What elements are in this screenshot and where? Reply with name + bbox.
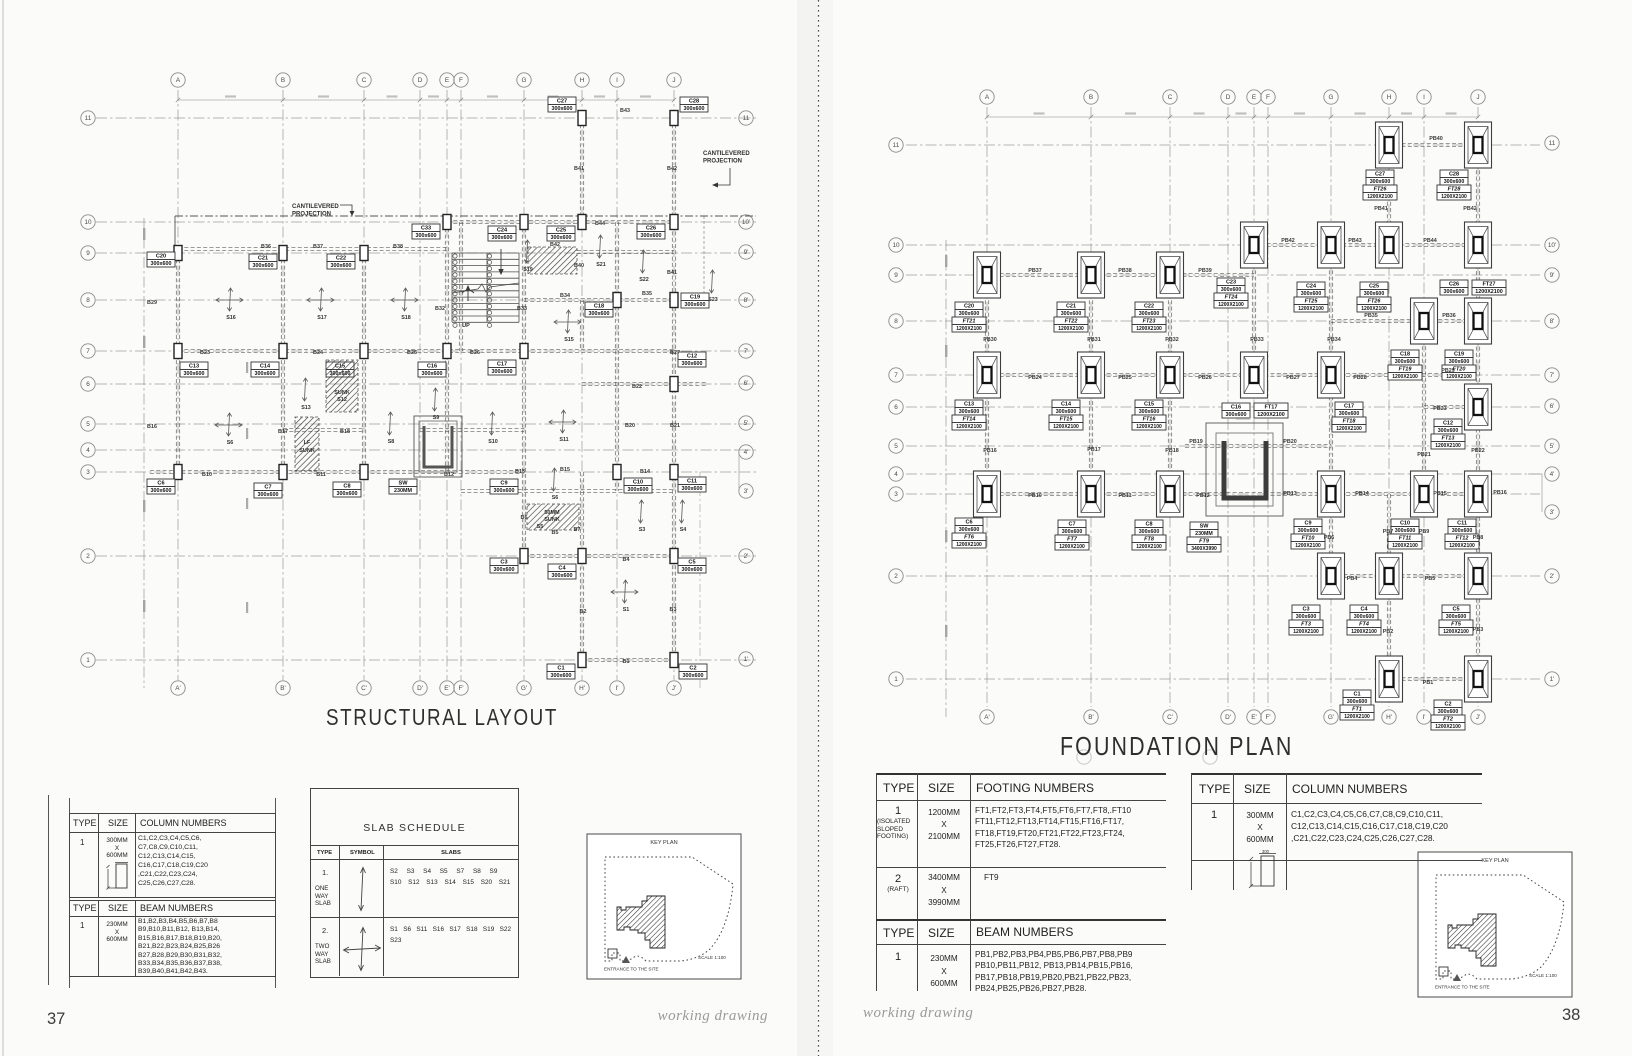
- svg-text:C: C: [362, 77, 367, 84]
- offset exterior line right of J: [703, 216, 705, 305]
- svg-text:C11: C11: [1457, 521, 1467, 527]
- grid bubble 1' right: [739, 652, 753, 666]
- svg-text:I: I: [1423, 94, 1425, 101]
- svg-text:G': G': [1328, 714, 1334, 721]
- svg-text:PB31: PB31: [1087, 337, 1101, 343]
- grid bubble 5' right (foundation): [1545, 439, 1559, 453]
- beam PB35-PB36 row 8: [1331, 319, 1478, 322]
- svg-text:300x600: 300x600: [1056, 409, 1077, 415]
- column at I3: [613, 465, 621, 480]
- svg-text:C14: C14: [1061, 402, 1072, 408]
- svg-text:PB4: PB4: [1347, 576, 1358, 582]
- svg-text:C26: C26: [1449, 282, 1459, 288]
- beam PB40 row 11: [1389, 143, 1478, 146]
- svg-text:PB19: PB19: [1189, 439, 1203, 445]
- footing label C22/FT23: [1132, 302, 1166, 332]
- grid bubble 11 left: [81, 111, 95, 125]
- svg-text:FT22: FT22: [1065, 319, 1078, 325]
- grid bubble D top (foundation): [1221, 90, 1235, 104]
- grid bubble C top: [357, 73, 371, 87]
- svg-text:C3: C3: [500, 560, 507, 566]
- beam B9 col I: [615, 300, 618, 491]
- column at J11: [670, 111, 678, 126]
- column at J3: [670, 465, 678, 480]
- svg-text:I: I: [616, 77, 618, 84]
- grid bubble 6 left (foundation): [889, 400, 903, 414]
- grid jog to bubble 3': [735, 450, 739, 491]
- svg-text:PB24: PB24: [1028, 375, 1042, 381]
- svg-text:PB42: PB42: [1463, 206, 1477, 212]
- grid bubble 9' right (foundation): [1545, 268, 1559, 282]
- grid line C: [363, 90, 365, 680]
- beam B23-B27 row 7: [178, 349, 674, 352]
- footing at C9: [1157, 252, 1184, 298]
- sunk slab hatch near G9: [528, 247, 577, 274]
- svg-text:C18: C18: [594, 304, 604, 310]
- footing label C8/FT8: [1132, 520, 1166, 550]
- outline left edge: [174, 216, 176, 253]
- svg-text:2: 2: [894, 573, 898, 580]
- svg-text:C11: C11: [687, 479, 697, 485]
- svg-text:S9: S9: [433, 415, 440, 421]
- svg-text:300x600: 300x600: [959, 409, 980, 415]
- offset line left of A (foundation): [945, 240, 947, 717]
- svg-text:300x600: 300x600: [959, 311, 980, 317]
- svg-text:C9: C9: [1304, 521, 1311, 527]
- svg-text:300x600: 300x600: [1354, 614, 1375, 620]
- svg-text:7': 7': [744, 348, 749, 355]
- svg-text:B18: B18: [340, 429, 350, 435]
- svg-text:5': 5': [744, 420, 749, 427]
- svg-text:6: 6: [894, 404, 898, 411]
- svg-text:SCALE 1:100: SCALE 1:100: [1529, 973, 1557, 978]
- svg-text:C1: C1: [1353, 692, 1360, 698]
- svg-text:PB27: PB27: [1286, 375, 1300, 381]
- sunk slab hatch near B5: [295, 417, 319, 471]
- site boundary: [1436, 875, 1564, 979]
- grid bubble 7' right: [739, 344, 753, 358]
- offset line left of A: [143, 218, 145, 688]
- beam col E: [445, 222, 448, 472]
- svg-text:300x600: 300x600: [1446, 614, 1467, 620]
- footing at E10: [1241, 222, 1268, 268]
- grid line D (foundation): [1227, 107, 1229, 707]
- svg-text:300x600: 300x600: [1449, 359, 1470, 365]
- svg-text:PB5: PB5: [1425, 576, 1436, 582]
- grid bubble 2 left: [81, 549, 95, 563]
- svg-text:300x600: 300x600: [1139, 529, 1160, 535]
- svg-text:6': 6': [744, 380, 749, 387]
- svg-text:300x600: 300x600: [255, 371, 276, 377]
- column label C10: [624, 478, 652, 493]
- svg-text:FT17: FT17: [1264, 405, 1277, 411]
- grid bubble A' bottom (foundation): [980, 710, 994, 724]
- svg-text:9: 9: [86, 250, 90, 257]
- svg-text:FT27: FT27: [1482, 282, 1495, 288]
- grid bubble E top (foundation): [1247, 90, 1261, 104]
- column label C6: [147, 479, 175, 494]
- svg-text:PB33: PB33: [1250, 337, 1264, 343]
- beam col H mid: [580, 300, 583, 351]
- column at G10: [520, 215, 528, 230]
- grid bubble 4 left (foundation): [889, 467, 903, 481]
- svg-text:C20: C20: [156, 254, 166, 260]
- svg-text:B2: B2: [580, 609, 587, 615]
- svg-text:B25: B25: [407, 350, 417, 356]
- svg-text:C19: C19: [1454, 352, 1464, 358]
- svg-text:C12: C12: [687, 354, 697, 360]
- column label C25: [547, 226, 575, 241]
- lift dim tick: [1236, 417, 1250, 419]
- svg-text:C': C': [361, 685, 367, 692]
- svg-text:J: J: [672, 77, 675, 84]
- svg-text:1200X2100: 1200X2100: [1443, 629, 1469, 635]
- grid line E (foundation): [1253, 107, 1255, 707]
- svg-text:B15: B15: [560, 467, 570, 473]
- grid line 1 (foundation): [906, 678, 1540, 680]
- grid bubble 9 left (foundation): [889, 268, 903, 282]
- grid bubble 8' right (foundation): [1545, 314, 1559, 328]
- svg-text:300x600: 300x600: [552, 106, 573, 112]
- column at G7: [520, 344, 528, 359]
- grid line I: [616, 90, 618, 680]
- column at G2: [520, 549, 528, 564]
- svg-text:C8: C8: [1145, 522, 1152, 528]
- svg-text:PB6: PB6: [1324, 535, 1335, 541]
- svg-text:1': 1': [1550, 676, 1555, 683]
- grid bubble 4 left: [81, 443, 95, 457]
- column label C16: [1222, 403, 1250, 418]
- grid line B (foundation): [1090, 107, 1092, 707]
- svg-text:PB3: PB3: [1473, 627, 1484, 633]
- svg-text:B6: B6: [521, 515, 528, 521]
- grid bubble 4' right (foundation): [1545, 467, 1559, 481]
- svg-text:H': H': [579, 685, 585, 692]
- svg-text:8': 8': [1550, 318, 1555, 325]
- grid bubble J top (foundation): [1471, 90, 1485, 104]
- svg-text:B5: B5: [552, 530, 559, 536]
- svg-text:FT28: FT28: [1448, 187, 1462, 193]
- grid bubble I top (foundation): [1417, 90, 1431, 104]
- grid bubble 10' right (foundation): [1545, 238, 1559, 252]
- beam B1 row 1: [582, 658, 674, 661]
- svg-text:PB11: PB11: [1118, 493, 1131, 499]
- top dimension line (foundation): [985, 115, 1480, 119]
- site building footprint: [1448, 914, 1496, 966]
- svg-text:PB17: PB17: [1087, 447, 1101, 453]
- grid line 7: [96, 350, 756, 352]
- svg-text:1200X2100: 1200X2100: [956, 326, 982, 332]
- svg-text:C28: C28: [1449, 172, 1459, 178]
- grid bubble F' bottom (foundation): [1261, 710, 1275, 724]
- grid bubble G' bottom (foundation): [1324, 710, 1338, 724]
- svg-text:1200X2100: 1200X2100: [1435, 724, 1461, 730]
- svg-text:1: 1: [894, 676, 898, 683]
- column label C9: [490, 479, 518, 494]
- inner dimension marks column: [246, 362, 248, 613]
- svg-text:B33: B33: [517, 306, 527, 312]
- svg-text:S6: S6: [552, 495, 559, 501]
- svg-text:PB34: PB34: [1327, 337, 1341, 343]
- grid bubble 11' right: [739, 111, 753, 125]
- svg-text:300x600: 300x600: [1339, 411, 1360, 417]
- svg-text:KEY PLAN: KEY PLAN: [650, 840, 677, 846]
- svg-text:S10: S10: [488, 439, 498, 445]
- svg-text:F': F': [458, 685, 463, 692]
- svg-text:C6: C6: [157, 481, 164, 487]
- svg-text:300x600: 300x600: [682, 361, 703, 367]
- beam PB10-PB16 row 3: [987, 492, 1478, 495]
- svg-text:3': 3': [1550, 509, 1555, 516]
- grid bubble 2' right (foundation): [1545, 569, 1559, 583]
- raft label FT9: [1187, 522, 1221, 552]
- footing at A3: [974, 471, 1001, 517]
- svg-text:PB10: PB10: [1028, 493, 1042, 499]
- svg-text:PB25: PB25: [1118, 375, 1132, 381]
- footing at J10: [1465, 222, 1492, 268]
- svg-text:2: 2: [86, 553, 90, 560]
- beam PB31-PB17 col B: [1089, 275, 1092, 494]
- column label C26: [637, 224, 665, 239]
- svg-text:B22: B22: [632, 384, 642, 390]
- svg-text:1: 1: [86, 657, 90, 664]
- svg-text:C22: C22: [336, 256, 346, 262]
- svg-text:PB43: PB43: [1348, 238, 1362, 244]
- svg-text:300x600: 300x600: [1347, 699, 1368, 705]
- grid bubble 8' right: [739, 293, 753, 307]
- beam PB4-PB5 row 2: [1331, 574, 1478, 577]
- svg-text:B44: B44: [595, 221, 605, 227]
- column label C15: [326, 362, 354, 377]
- svg-text:3': 3': [744, 488, 749, 495]
- svg-text:1200X2100: 1200X2100: [1136, 544, 1162, 550]
- svg-text:FT4: FT4: [1359, 622, 1369, 628]
- footing label C2/FT2: [1431, 700, 1465, 730]
- svg-text:C17: C17: [497, 362, 507, 368]
- grid bubble 10 left (foundation): [889, 238, 903, 252]
- grid line 2: [96, 555, 756, 557]
- svg-text:1200X2100: 1200X2100: [1298, 306, 1324, 312]
- svg-text:300x600: 300x600: [1139, 311, 1160, 317]
- svg-text:4: 4: [86, 447, 90, 454]
- column label C5: [678, 558, 706, 573]
- svg-text:F: F: [459, 77, 463, 84]
- column at J10: [670, 215, 678, 230]
- svg-text:C27: C27: [557, 99, 567, 105]
- svg-text:PB2: PB2: [1383, 629, 1394, 635]
- svg-text:7: 7: [86, 348, 90, 355]
- beam PB1 row 1: [1389, 677, 1478, 680]
- svg-text:B32: B32: [435, 306, 445, 312]
- grid bubble G' bottom: [517, 681, 531, 695]
- svg-text:300x600: 300x600: [1301, 291, 1322, 297]
- grid bubble 9 left: [81, 246, 95, 260]
- shear wall label SW: [389, 479, 417, 494]
- svg-text:300x600: 300x600: [331, 263, 352, 269]
- stair down arrow: [499, 249, 503, 274]
- footing at G10: [1318, 222, 1345, 268]
- grid bubble J' bottom: [667, 681, 681, 695]
- svg-text:1200X2100: 1200X2100: [1441, 194, 1467, 200]
- beam PB37-PB39 row 9: [987, 273, 1254, 276]
- beam B10-B12 row 3: [150, 470, 524, 473]
- svg-text:6': 6': [1550, 403, 1555, 410]
- grid bubble 1 left: [81, 653, 95, 667]
- svg-text:C24: C24: [497, 228, 508, 234]
- svg-text:300x600: 300x600: [1298, 528, 1319, 534]
- svg-text:C': C': [1167, 714, 1173, 721]
- svg-text:300x600: 300x600: [1062, 529, 1083, 535]
- svg-text:PB37: PB37: [1028, 268, 1042, 274]
- svg-text:8: 8: [86, 297, 90, 304]
- grid bubble 6 left: [81, 377, 95, 391]
- svg-text:PB16: PB16: [1493, 490, 1507, 496]
- svg-text:10': 10': [1548, 242, 1556, 249]
- svg-text:B27: B27: [670, 350, 680, 356]
- slab mark S15: [554, 310, 581, 333]
- svg-text:B1: B1: [623, 659, 630, 665]
- footing label FT17: [1254, 403, 1288, 418]
- svg-text:300x600: 300x600: [1221, 287, 1242, 293]
- svg-text:C10: C10: [633, 480, 643, 486]
- column at H1: [578, 653, 586, 668]
- svg-text:A': A': [984, 714, 989, 721]
- svg-text:PB15: PB15: [1433, 491, 1447, 497]
- grid bubble 7 left: [81, 344, 95, 358]
- footing at G7: [1318, 352, 1345, 398]
- lift core walls (foundation): [1206, 423, 1283, 516]
- grid bubble F' bottom: [454, 681, 468, 695]
- column at B3: [279, 465, 287, 480]
- svg-text:300x600: 300x600: [1444, 179, 1465, 185]
- grid line A: [177, 90, 179, 680]
- svg-text:300x600: 300x600: [682, 486, 703, 492]
- top dimension line: [176, 98, 676, 102]
- svg-text:300x600: 300x600: [492, 235, 513, 241]
- svg-text:1200X2100: 1200X2100: [1392, 543, 1418, 549]
- svg-text:PB40: PB40: [1429, 136, 1443, 142]
- grid line G (foundation): [1330, 107, 1332, 707]
- grid bubble E' bottom (foundation): [1247, 710, 1261, 724]
- grid line 5 (foundation): [906, 445, 1540, 447]
- svg-text:SCALE 1:100: SCALE 1:100: [698, 955, 726, 960]
- svg-text:C33: C33: [421, 226, 431, 232]
- svg-text:300x600: 300x600: [494, 488, 515, 494]
- grid bubble G top: [517, 73, 531, 87]
- beam PB33 col E: [1252, 245, 1255, 375]
- column at H10: [578, 215, 586, 230]
- svg-text:300x600: 300x600: [151, 488, 172, 494]
- footing label C14/FT15: [1049, 400, 1083, 430]
- svg-text:C18: C18: [1400, 352, 1410, 358]
- grid line 6: [96, 383, 756, 385]
- svg-text:PB9: PB9: [1419, 529, 1430, 535]
- svg-text:B26: B26: [470, 350, 480, 356]
- svg-text:3: 3: [86, 469, 90, 476]
- grid bubble 2 left (foundation): [889, 569, 903, 583]
- svg-text:PB36: PB36: [1442, 313, 1456, 319]
- column label C2: [679, 664, 707, 679]
- svg-text:B: B: [281, 77, 285, 84]
- svg-text:300x600: 300x600: [685, 302, 706, 308]
- svg-text:300x600: 300x600: [959, 527, 980, 533]
- svg-text:300x600: 300x600: [1444, 289, 1465, 295]
- svg-text:1200X2100: 1200X2100: [1053, 424, 1079, 430]
- svg-text:C13: C13: [964, 402, 974, 408]
- column at I8: [613, 293, 621, 308]
- svg-text:D': D': [1225, 714, 1231, 721]
- cantilever outline top: [175, 215, 756, 217]
- svg-text:FT11: FT11: [1399, 536, 1411, 542]
- grid line 6 (foundation): [906, 406, 1540, 408]
- footing label C19/FT20: [1442, 350, 1476, 380]
- slab mark S19: [524, 240, 529, 263]
- svg-text:C25: C25: [1369, 284, 1379, 290]
- svg-text:S22: S22: [639, 277, 649, 283]
- grid line F (foundation): [1267, 107, 1269, 707]
- column at E10: [443, 215, 451, 230]
- svg-text:C6: C6: [965, 520, 972, 526]
- grid bubble I top: [610, 73, 624, 87]
- svg-text:10: 10: [892, 242, 900, 249]
- svg-text:PB44: PB44: [1423, 238, 1437, 244]
- column label C19: [681, 293, 709, 308]
- staircase treads: [452, 253, 519, 322]
- slab mark S23: [709, 270, 714, 293]
- grid bubble 10 left: [81, 215, 95, 229]
- footing label C7/FT7: [1055, 520, 1089, 550]
- grid bubble B top: [276, 73, 290, 87]
- svg-text:C26: C26: [646, 226, 656, 232]
- footing label C25/FT26: [1357, 282, 1391, 312]
- svg-text:FT18: FT18: [1343, 419, 1357, 425]
- ghost bubble D' scan bleed: [1077, 750, 1091, 764]
- grid bubble B' bottom: [276, 681, 290, 695]
- svg-text:B35: B35: [642, 291, 652, 297]
- svg-text:B41: B41: [667, 270, 677, 276]
- grid bubble 5' right: [739, 416, 753, 430]
- footing label C28/FT28: [1437, 170, 1471, 200]
- column label C28: [680, 97, 708, 112]
- svg-text:C21: C21: [258, 256, 268, 262]
- beam B29-B16 col A: [176, 253, 179, 472]
- svg-text:4: 4: [894, 471, 898, 478]
- svg-text:300x600: 300x600: [1296, 614, 1317, 620]
- svg-text:FT24: FT24: [1225, 295, 1238, 301]
- grid line 10: [96, 221, 756, 223]
- svg-text:9: 9: [894, 272, 898, 279]
- footing at C7: [1157, 352, 1184, 398]
- svg-text:D: D: [1226, 94, 1231, 101]
- svg-text:S12: S12: [337, 397, 347, 403]
- column label C26: [1440, 280, 1468, 295]
- svg-text:B': B': [1088, 714, 1093, 721]
- column at B9: [279, 246, 287, 261]
- grid bubble 9' right: [739, 245, 753, 259]
- column at C3: [360, 465, 368, 480]
- grid line 8: [96, 299, 756, 301]
- svg-text:FT13: FT13: [1442, 436, 1455, 442]
- column label C13: [180, 362, 208, 377]
- ghost bubble G' scan bleed: [1203, 750, 1217, 764]
- svg-text:300x600: 300x600: [684, 106, 705, 112]
- beam PB41 col H top: [1387, 145, 1390, 245]
- svg-text:FT23: FT23: [1143, 319, 1156, 325]
- svg-text:H: H: [580, 77, 585, 84]
- grid line 3: [96, 471, 756, 473]
- entrance gate square: [1439, 967, 1448, 976]
- svg-text:1200X2100: 1200X2100: [1136, 424, 1162, 430]
